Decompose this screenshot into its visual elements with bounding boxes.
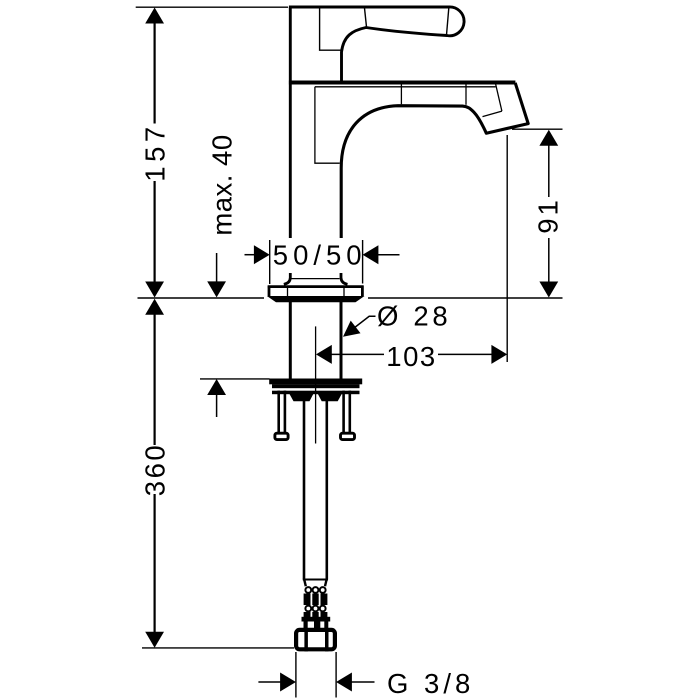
svg-text:103: 103	[386, 341, 436, 372]
aerator split line b	[483, 111, 502, 117]
hose right edge	[325, 397, 328, 580]
body left edge	[289, 7, 292, 238]
extension line washer top	[200, 378, 270, 380]
stud left inner	[284, 391, 287, 432]
dimension 360	[140, 299, 171, 648]
extension line bottom (hose end level)	[142, 647, 294, 649]
stud right inner	[342, 391, 345, 432]
svg-text:360: 360	[140, 443, 171, 496]
nut facet line right	[325, 628, 329, 651]
mounting nut band	[272, 391, 360, 395]
ferrule neck right	[325, 580, 327, 587]
nut trapezoid right	[318, 394, 342, 401]
svg-text:91: 91	[533, 197, 564, 234]
ferrule flare band	[302, 617, 331, 622]
lever split line	[365, 8, 367, 27]
flange bottom dark band	[267, 296, 365, 302]
nut trapezoid left	[290, 394, 314, 401]
lever cap split line	[447, 8, 449, 35]
ferrule neck left	[304, 580, 306, 587]
svg-text:G 3/8: G 3/8	[387, 668, 474, 699]
flange band top edge	[268, 285, 364, 288]
escutcheon dome left shoulder	[284, 273, 291, 284]
escutcheon dome top thin line	[292, 278, 340, 280]
escutcheon dome right shoulder	[341, 273, 348, 284]
flange inner line left	[287, 288, 289, 296]
corrugation circles row 1	[305, 587, 325, 593]
hose ferrule top line	[303, 579, 328, 581]
spout wall thin line	[315, 86, 496, 88]
connector bars above nut	[304, 622, 329, 629]
dimension 157	[140, 8, 171, 298]
spout top edge	[289, 81, 516, 85]
washer band lower lip	[272, 384, 360, 388]
flange band right edge	[361, 286, 364, 297]
corrugation circles row 2	[305, 606, 325, 612]
corrugation band 2	[304, 612, 328, 617]
counter line right	[368, 297, 563, 299]
extension line top (faucet top level)	[136, 6, 288, 8]
spout tip and underside outline	[341, 83, 528, 238]
svg-text:50/50: 50/50	[273, 239, 367, 270]
svg-text:Ø 28: Ø 28	[377, 300, 451, 331]
hose left edge	[303, 397, 306, 580]
stud right outer	[349, 391, 352, 432]
label diameter 28 with leader	[343, 300, 451, 337]
aerator split line a	[496, 84, 502, 111]
dimension G 3/8	[258, 652, 474, 699]
dimension 50/50	[245, 239, 400, 284]
union nut body	[296, 630, 335, 649]
centerline	[315, 326, 317, 443]
flange inner line right	[343, 288, 345, 296]
spout segment line 1	[400, 84, 402, 104]
stud right end cap	[341, 433, 355, 439]
spout segment line 2	[465, 84, 467, 105]
stud left end cap	[275, 433, 288, 439]
handle cartridge internal line	[320, 8, 341, 50]
shank right edge	[340, 301, 343, 379]
svg-text:max. 40: max. 40	[207, 134, 238, 235]
dimension 103	[316, 135, 507, 372]
dimension max. 40	[207, 134, 238, 417]
lever handle outline	[289, 7, 464, 81]
flange band left edge	[268, 286, 271, 297]
dimension 91	[512, 129, 564, 297]
nut facet line left	[304, 628, 308, 651]
stud left outer	[277, 391, 280, 432]
counter line left	[138, 297, 265, 299]
corrugation band 1	[304, 594, 328, 606]
svg-text:157: 157	[140, 122, 171, 181]
body internal thin line	[315, 87, 340, 163]
shank left edge	[289, 301, 292, 379]
washer band upper	[269, 379, 362, 385]
